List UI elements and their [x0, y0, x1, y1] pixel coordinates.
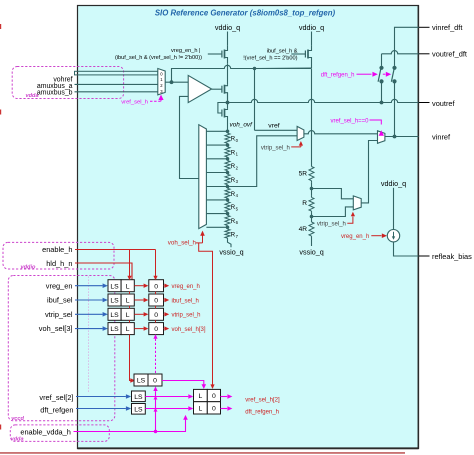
wire vreg_en blue	[75, 285, 103, 287]
arrow voh_sel[3] into LS	[103, 326, 108, 331]
resistor ladder R0-R7	[225, 127, 230, 240]
wire op-amp output	[212, 88, 222, 90]
wire ibuf_sel blue	[75, 299, 103, 301]
label 5R	[299, 171, 308, 178]
arrow vtrip_sel_h into mux3	[351, 212, 355, 217]
arrow voh_sel_h into ladder mux	[200, 231, 205, 236]
wire mux1 output	[304, 131, 378, 134]
label vddio_q 2	[299, 23, 324, 32]
svg-text:vref_sel[2]: vref_sel[2]	[39, 393, 73, 402]
arrow into L rowB	[188, 406, 193, 411]
wire voh_sel_h lead	[196, 236, 203, 243]
svg-text:ibuf_sel_h: ibuf_sel_h	[172, 298, 199, 304]
wire enable chain below row4	[130, 335, 131, 381]
arrow into 0 row1	[144, 284, 149, 288]
label vccd	[11, 416, 24, 422]
label M4 gate line2	[243, 55, 297, 61]
label vtrip_sel_h	[172, 313, 201, 319]
level shifter LS botA	[132, 391, 146, 402]
red page-border mark left 3	[0, 425, 1, 430]
arrow vdda enable into row4 0box	[153, 334, 157, 338]
svg-text:L: L	[126, 298, 130, 305]
transistor M3 nmos diode	[222, 109, 228, 128]
label vref_sel_h[2]	[245, 397, 280, 403]
arrow out rowA	[227, 394, 232, 399]
svg-text:voh_sel_h: voh_sel_h	[168, 239, 197, 246]
chip box heavy right edge	[417, 6, 419, 449]
arrow vtrip_sel into LS	[103, 312, 108, 317]
wire tap1 to mux3	[312, 189, 354, 199]
label vreg_en_h	[341, 234, 369, 240]
svg-text:vref_sel_h[2]: vref_sel_h[2]	[245, 397, 280, 403]
latch L row2	[121, 294, 134, 306]
label vssio_q ladder	[219, 248, 243, 257]
wire rail voutref node	[227, 93, 229, 109]
arrow vref_sel[2]	[126, 394, 131, 399]
iso cell 0 row2	[149, 294, 164, 306]
label vtrip_sel	[45, 310, 73, 319]
wire vdda enable dashed up	[155, 339, 157, 374]
red page-border mark left 1	[0, 24, 1, 29]
wire switch1 down to voutref	[381, 81, 383, 102]
ls0 pair 0	[148, 374, 162, 386]
wire dft_refgen_h lead	[357, 73, 386, 75]
svg-text:amuxbus_b: amuxbus_b	[37, 89, 73, 96]
ls0 pair LS	[134, 374, 148, 386]
svg-text:LS: LS	[137, 378, 146, 385]
label dft_refgen	[40, 405, 73, 414]
svg-text:0: 0	[212, 393, 216, 400]
mux U_insel	[158, 69, 165, 95]
label M1 gate line1	[171, 48, 200, 54]
faint dotted vertical	[88, 277, 90, 393]
red page-border mark left 2	[0, 110, 1, 115]
node ladder tap 1	[226, 143, 230, 147]
arrow into 0 row4	[144, 326, 149, 330]
arrow dft_refgen_h sw2	[386, 72, 391, 77]
iso cell 0 row1	[149, 280, 164, 292]
label R	[302, 200, 307, 207]
wire vtrip_sel_h mux3 lead	[347, 217, 353, 224]
wire vref_sel_h==0 lead	[370, 120, 382, 125]
switch S1 dft	[378, 66, 384, 84]
label dft_refgen_h	[321, 73, 355, 79]
svg-text:(ibuf_sel_h & (vref_sel_h != 2: (ibuf_sel_h & (vref_sel_h != 2'b00))	[115, 55, 202, 61]
wire voutref_dft to switch1	[382, 51, 419, 66]
svg-text:vddio: vddio	[21, 264, 36, 270]
svg-text:vreg_en: vreg_en	[46, 281, 73, 290]
label vddio	[21, 264, 36, 270]
chip boundary box s8iom0s8_top_refgen	[78, 6, 419, 449]
label vreg_en_h	[172, 284, 200, 290]
arrow red into LS0 pair	[130, 378, 135, 383]
svg-text:0: 0	[153, 378, 157, 385]
svg-text:L: L	[126, 326, 130, 333]
wire ladder tap 7 to mux	[206, 226, 227, 228]
wire mux3 output up	[361, 141, 377, 203]
label R7	[231, 233, 239, 239]
node ladder tap 5	[226, 198, 230, 202]
label vddio_q 1	[215, 23, 240, 32]
node ladder tap 7	[226, 226, 230, 230]
pin voutref	[228, 99, 456, 108]
node divider tap1	[310, 187, 314, 191]
wire L to 0 row4	[134, 328, 143, 330]
wire vref vertical x254.5	[254, 69, 256, 131]
arrow into L rowA	[188, 394, 193, 399]
chip box heavy bottom edge	[78, 447, 419, 449]
svg-text:vreg_en_h: vreg_en_h	[172, 284, 200, 290]
wire voh_sel_h branch down	[199, 243, 213, 385]
label voh_sel_h[3]	[172, 327, 206, 333]
arrow out row2	[164, 298, 169, 302]
transistor M4 pmos ibuf	[305, 45, 311, 68]
arrow into 0 row2	[144, 298, 149, 302]
arrow vtrip_sel_h into mux1	[299, 141, 303, 146]
svg-text:vref_sel_h: vref_sel_h	[121, 100, 148, 106]
wire vtrip_sel blue	[75, 313, 103, 315]
label ibuf_sel	[47, 296, 73, 305]
iso 0 rowA	[207, 389, 220, 401]
svg-text:hld_h_n: hld_h_n	[46, 259, 72, 268]
label dft_refgen_h out	[245, 410, 279, 416]
label vref_sel_h==0	[330, 118, 369, 124]
pin vinref_dft	[419, 23, 463, 32]
svg-text:dft_refgen: dft_refgen	[40, 405, 73, 414]
arrow out row1	[164, 284, 169, 288]
arrow enable_vdda up	[183, 415, 188, 420]
arrow dft_refgen	[126, 406, 131, 411]
wire enable chain L col	[129, 250, 131, 277]
label vddio_q 3	[381, 179, 406, 188]
arrow out row3	[164, 312, 169, 316]
resistor 4R	[309, 221, 314, 247]
svg-text:0: 0	[154, 298, 158, 305]
svg-text:vddio_q: vddio_q	[381, 179, 406, 188]
svg-text:vssio_q: vssio_q	[219, 248, 243, 257]
svg-text:4R: 4R	[299, 226, 308, 233]
svg-text:enable_h: enable_h	[42, 245, 72, 254]
label vref_sel_h select	[121, 100, 148, 106]
label vohref	[53, 77, 72, 84]
label R3	[231, 178, 239, 184]
svg-text:vreg_en_h: vreg_en_h	[341, 234, 369, 240]
node ladder tap 0	[226, 130, 230, 134]
wire ladder tap 0 to mux	[206, 130, 227, 132]
wire ladder tap 2 to mux	[206, 158, 227, 160]
wire LS botB out	[145, 408, 188, 410]
mux U_vohsel ladder mux	[199, 125, 207, 229]
arrow into 0 row3	[144, 312, 149, 316]
label R0	[231, 137, 239, 143]
latch L row4	[121, 323, 134, 335]
svg-text:dft_refgen_h: dft_refgen_h	[245, 410, 279, 416]
node ladder tap 2	[226, 157, 230, 161]
wire vreg_en_h lead	[371, 235, 381, 237]
label M4 gate line1	[267, 49, 298, 55]
svg-text:vddio_q: vddio_q	[215, 23, 240, 32]
label vref_sel[2]	[39, 393, 73, 402]
wire ladder tap 5 to mux	[206, 199, 227, 201]
svg-text:voh_sel_h[3]: voh_sel_h[3]	[172, 327, 206, 333]
svg-text:vccd: vccd	[11, 416, 24, 422]
wire amuxbus_a	[75, 83, 158, 85]
svg-text:vtrip_sel_h: vtrip_sel_h	[317, 222, 346, 228]
arrow out rowB	[227, 406, 232, 411]
node vinref junction	[393, 135, 397, 139]
wire M3 gate tie	[218, 103, 228, 114]
arrow ibuf_sel into LS	[103, 298, 108, 303]
arrow vref_sel_h==0 into mux	[379, 130, 384, 136]
svg-text:dft_refgen_h: dft_refgen_h	[321, 73, 355, 79]
wire L to 0 row3	[134, 313, 143, 315]
wire vref_sel_h select lead	[150, 100, 161, 102]
svg-text:0: 0	[154, 312, 158, 319]
wire switch2 down to vinref	[394, 81, 396, 136]
svg-text:vtrip_sel: vtrip_sel	[45, 310, 73, 319]
svg-text:vdda: vdda	[11, 436, 24, 442]
wire out row4	[163, 328, 166, 330]
wire dft_refgen blue	[76, 408, 126, 410]
red page-border mark bottom	[0, 452, 405, 453]
resistor R	[309, 196, 314, 213]
wire vref into mux1	[255, 129, 298, 131]
label hld_h_n	[46, 259, 72, 268]
label R2	[231, 164, 239, 170]
label vtrip_sel_h mux1	[261, 145, 290, 151]
title	[155, 9, 336, 18]
wire L to 0 row1	[134, 285, 143, 287]
arrow magenta into LO box top	[202, 384, 207, 389]
node voutref-switch junction	[380, 101, 384, 105]
wire vddio_q 1 down	[227, 32, 229, 46]
op-amp U_amp	[188, 75, 211, 102]
wire ls0 pair out	[162, 381, 204, 385]
current source I1	[387, 230, 399, 242]
svg-text:voutref_dft: voutref_dft	[432, 50, 467, 59]
wire mux output to node vref_fb	[165, 81, 188, 83]
pin vinref label	[432, 133, 451, 142]
svg-text:vref_sel_h==0: vref_sel_h==0	[330, 118, 369, 124]
latch L row3	[121, 308, 134, 320]
label voh_sel_h	[168, 239, 197, 246]
svg-text:refleak_bias: refleak_bias	[432, 252, 472, 261]
arrow vdda enable crossing rowB	[154, 408, 158, 412]
level shifter LS row3	[108, 308, 121, 320]
transistor M1 pmos vreg_en	[222, 45, 228, 64]
label R6	[231, 219, 239, 225]
switch S2 dft	[391, 66, 396, 84]
node T at x254.5 y68	[253, 67, 256, 70]
node divider tap2	[310, 215, 314, 219]
label ibuf_sel_h	[172, 298, 199, 304]
latch L rowA	[194, 389, 208, 401]
svg-text:0: 0	[154, 283, 158, 290]
group box vdda inputs	[12, 67, 123, 99]
level shifter LS row1	[108, 280, 121, 292]
wire ladder bottom jog	[228, 240, 232, 247]
wire ladder tap 4 to mux	[206, 186, 227, 188]
pin refleak_bias	[394, 242, 473, 261]
label R1	[231, 150, 239, 156]
node ladder tap 6	[226, 212, 230, 216]
svg-text:vinref_dft: vinref_dft	[432, 23, 462, 32]
arrow vreg_en into LS	[103, 283, 108, 288]
latch L rowB	[194, 402, 208, 414]
label vtrip_sel_h mux3	[317, 222, 346, 228]
arrow dft_refgen_h sw1	[372, 72, 377, 77]
node ladder tap 3	[226, 171, 230, 175]
svg-text:vtrip_sel_h: vtrip_sel_h	[261, 145, 290, 151]
wire out row3	[163, 313, 166, 315]
group box vddio	[3, 242, 114, 269]
svg-text:vref: vref	[268, 122, 279, 129]
mux U_vtrip	[353, 196, 361, 210]
node enable_vdda branch	[154, 430, 157, 433]
svg-text:L: L	[126, 312, 130, 319]
svg-text:vreg_en_h |: vreg_en_h |	[171, 48, 200, 54]
arrow enable into L row1	[127, 276, 131, 280]
svg-text:5R: 5R	[299, 171, 308, 178]
resistor 5R	[309, 165, 314, 182]
label M1 gate line2	[115, 55, 202, 61]
svg-text:ibuf_sel: ibuf_sel	[47, 296, 73, 305]
label vreg_en	[46, 281, 73, 290]
label voh_sel[3]	[39, 324, 73, 333]
wire out row2	[163, 299, 166, 301]
group box vdda bottom	[10, 425, 109, 442]
label vssio_q divider	[299, 248, 323, 257]
wire vinref mux output	[385, 136, 419, 138]
wire ibuf drain to divider	[255, 68, 312, 165]
label R4	[231, 192, 239, 198]
svg-text:0: 0	[154, 326, 158, 333]
label amuxbus_a	[37, 83, 73, 90]
wire voh_sel[3] blue	[75, 328, 103, 330]
wire enable chain 0 col	[155, 250, 157, 277]
arrow out row4	[164, 326, 169, 330]
wire vinref_dft to switch2	[395, 27, 419, 66]
wire vohref bus	[75, 71, 158, 75]
svg-text:SIO Reference Generator (s8iom: SIO Reference Generator (s8iom0s8_top_re…	[155, 9, 336, 18]
svg-text:voutref: voutref	[432, 99, 456, 108]
arrow vreg_en_h into I1	[382, 233, 387, 238]
svg-text:LS: LS	[110, 312, 119, 319]
wire vref horizontal y68	[172, 65, 312, 68]
iso cell 0 row4	[149, 323, 164, 335]
arrow enable into 0 row1	[153, 276, 157, 280]
label enable_vdda_h	[20, 428, 71, 437]
wire divider seg1	[311, 182, 313, 196]
level shifter LS row2	[108, 294, 121, 306]
wire vtrip_sel_h mux1 lead	[291, 146, 301, 147]
wire vref_sel[2] blue	[76, 396, 126, 398]
svg-text:R: R	[302, 200, 307, 207]
wire ladder tap 6 to mux	[206, 213, 227, 215]
level shifter LS row4	[108, 323, 121, 335]
pin voutref_dft	[419, 50, 467, 59]
wire ladder tap 1 to mux	[206, 144, 227, 146]
wire out rowB	[221, 408, 228, 410]
arrow vdda enable crossing rowA	[154, 396, 158, 400]
svg-text:enable_vdda_h: enable_vdda_h	[20, 428, 71, 437]
svg-text:LS: LS	[110, 298, 119, 305]
wire divider seg2	[311, 213, 313, 221]
wire mux1 lower input route	[228, 136, 298, 187]
wire vddio_q 2 down	[311, 32, 313, 46]
svg-text:LS: LS	[110, 326, 119, 333]
iso cell 0 row3	[149, 308, 164, 320]
label amuxbus_b	[37, 89, 73, 96]
svg-text:LS: LS	[134, 394, 143, 401]
wire rail M1 drain down	[227, 64, 229, 85]
svg-text:0: 0	[212, 405, 216, 412]
arrow vdda enable into pair0	[153, 386, 157, 391]
label enable_h	[42, 245, 72, 254]
svg-text:L: L	[126, 283, 130, 290]
wire feedback up from junction	[171, 68, 173, 82]
arrow red into LO box top	[210, 384, 214, 389]
svg-text:L: L	[199, 393, 203, 400]
wire enable_vdda_h	[74, 420, 186, 432]
wire LS botA out	[145, 396, 188, 398]
mux U_vinref	[378, 131, 385, 144]
wire enable_h	[75, 249, 156, 251]
iso 0 rowB	[207, 402, 220, 414]
wire hld_h_n	[75, 263, 132, 280]
wire enable chain inter-row segments	[130, 292, 156, 323]
svg-text:LS: LS	[110, 283, 119, 290]
label vdda	[26, 93, 39, 99]
wire M4 gate lead	[291, 53, 305, 55]
label vref	[268, 122, 279, 129]
node junction input-mux output	[170, 80, 174, 84]
svg-text:vinref: vinref	[432, 133, 451, 142]
wire out rowA	[221, 396, 228, 398]
svg-text:L: L	[199, 405, 203, 412]
level shifter LS botB	[132, 404, 146, 415]
svg-text:LS: LS	[134, 406, 143, 413]
group box vccd	[8, 276, 115, 421]
node ladder tap 4	[226, 185, 230, 189]
svg-text:voh_sel[3]: voh_sel[3]	[39, 324, 73, 333]
wire vddio_q 3 down	[393, 188, 395, 230]
svg-text:vssio_q: vssio_q	[299, 248, 323, 257]
svg-text:!(vref_sel_h == 2'b00): !(vref_sel_h == 2'b00)	[243, 55, 297, 61]
mux U_vref1	[297, 126, 304, 140]
label 4R	[299, 226, 308, 233]
label voh_ovf	[230, 121, 254, 128]
arrow vref_sel_h into mux	[158, 95, 163, 100]
wire ladder tap 3 to mux	[206, 172, 227, 174]
svg-text:voh_ovf: voh_ovf	[230, 121, 254, 128]
wire M1 gate lead	[208, 53, 222, 55]
wire L to 0 row2	[134, 299, 143, 301]
wire op-amp minus input	[180, 96, 199, 178]
wire out row1	[163, 285, 166, 287]
svg-text:vtrip_sel_h: vtrip_sel_h	[172, 313, 201, 319]
label R5	[231, 205, 239, 211]
label vdda bottom	[11, 436, 24, 442]
wire vdda enable vertical	[155, 391, 157, 431]
wire amuxbus_b	[75, 91, 158, 93]
node voutref junction	[226, 101, 230, 105]
latch L row1	[121, 280, 134, 292]
transistor M2 nmos follower	[222, 85, 228, 103]
svg-text:vddio_q: vddio_q	[299, 23, 324, 32]
wire tap2 to mux3	[312, 207, 354, 217]
